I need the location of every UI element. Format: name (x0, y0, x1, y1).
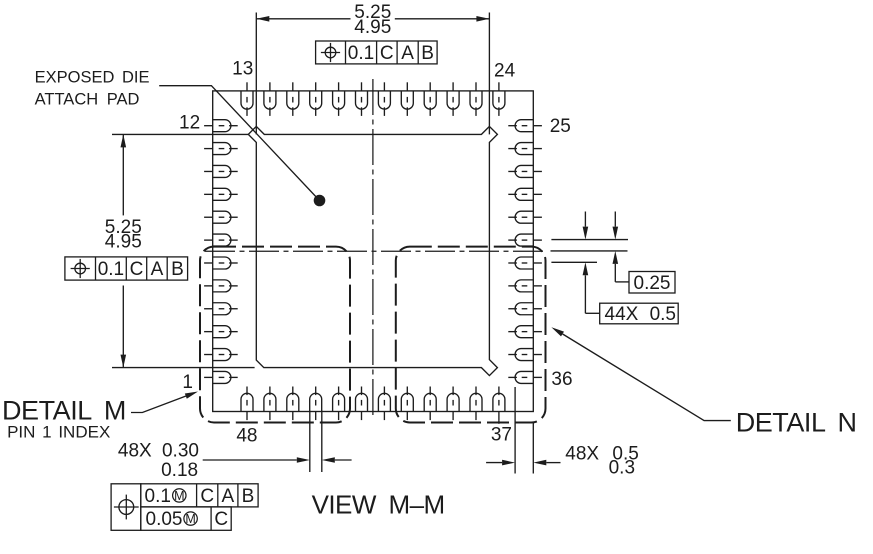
pin 26 pad (508, 143, 542, 155)
pin 45 pad (310, 387, 322, 421)
svg-text:VIEW M–M: VIEW M–M (312, 490, 445, 520)
svg-text:B: B (242, 486, 255, 507)
pin 31 pad (508, 257, 542, 269)
pin 47 pad (264, 387, 276, 421)
pin 39 pad (447, 387, 459, 421)
pin 2 pad (204, 349, 238, 361)
svg-text:0.1: 0.1 (145, 486, 171, 507)
pin 29 pad (508, 211, 542, 223)
svg-text:C: C (380, 43, 394, 64)
pin 46 pad (287, 387, 299, 421)
svg-text:0.18: 0.18 (161, 460, 198, 481)
pin 18 pad (356, 82, 368, 116)
pin 1 pad (204, 371, 238, 383)
pin 8 pad (204, 211, 238, 223)
svg-text:C: C (200, 486, 214, 507)
svg-text:0.1: 0.1 (348, 43, 374, 64)
svg-text:37: 37 (491, 425, 512, 446)
svg-text:4.95: 4.95 (354, 17, 391, 38)
svg-text:13: 13 (232, 59, 253, 80)
pin 17 pad (333, 82, 345, 116)
44X 0.5 boxed text (600, 303, 679, 324)
44X 0.5 upper arrow (584, 212, 586, 227)
package outer body outline (213, 91, 534, 412)
pin 48 pad (241, 387, 253, 421)
pin 10 pad (204, 165, 238, 177)
0.25 lower arrow and leader (613, 251, 619, 264)
svg-text:M: M (174, 489, 184, 503)
top dimension line with arrows (256, 18, 350, 20)
exposed die attach pad leader and dot (159, 86, 319, 201)
pin 15 pad (287, 82, 299, 116)
pin 5 pad (204, 280, 238, 292)
0.25 boxed text (629, 272, 675, 294)
pin 7 pad (204, 234, 238, 246)
horizontal center line (205, 250, 543, 252)
svg-text:A: A (222, 486, 235, 507)
svg-text:0.1: 0.1 (98, 259, 124, 280)
svg-text:M: M (185, 512, 195, 526)
pin 40 pad (424, 387, 436, 421)
svg-text:PIN 1 INDEX: PIN 1 INDEX (7, 422, 110, 441)
pin 11 pad (204, 143, 238, 155)
pin 4 pad (204, 303, 238, 315)
pin 34 pad (508, 326, 542, 338)
svg-text:DETAIL N: DETAIL N (736, 407, 857, 437)
pin 44 pad (333, 387, 345, 421)
0.25 upper arrow (614, 212, 616, 227)
svg-text:25: 25 (550, 116, 571, 137)
pin 37 pad (493, 387, 505, 421)
vertical center line (372, 79, 374, 419)
svg-text:48X 0.30: 48X 0.30 (118, 440, 199, 461)
pin 35 pad (508, 349, 542, 361)
svg-text:24: 24 (494, 61, 516, 82)
svg-text:36: 36 (551, 369, 572, 390)
pin 24 pad (493, 82, 505, 116)
svg-text:4.95: 4.95 (105, 232, 142, 253)
48X 0.5 extension lines (514, 387, 516, 474)
pin 9 pad (204, 188, 238, 200)
pin 13 pad (241, 82, 253, 116)
pin 21 pad (424, 82, 436, 116)
pin 16 pad (310, 82, 322, 116)
pin 27 pad (508, 165, 542, 177)
pin 36 pad (508, 371, 542, 383)
pin 20 pad (401, 82, 413, 116)
pin 28 pad (508, 188, 542, 200)
svg-text:0.3: 0.3 (609, 457, 635, 478)
left feature control frame (65, 257, 188, 280)
detail N boundary (dashed) (396, 247, 546, 423)
svg-text:DETAIL M: DETAIL M (2, 396, 126, 426)
pin 38 pad (470, 387, 482, 421)
bottom feature control frame (111, 484, 258, 531)
svg-text:A: A (151, 259, 164, 280)
left dimension line with arrows (122, 134, 124, 215)
top dimension extension lines (255, 13, 257, 135)
pin 33 pad (508, 303, 542, 315)
pin 41 pad (401, 387, 413, 421)
svg-text:B: B (421, 43, 434, 64)
left dimension extension lines (112, 133, 248, 135)
svg-text:12: 12 (179, 113, 200, 134)
svg-text:44X 0.5: 44X 0.5 (605, 304, 677, 325)
pin 6 pad (204, 257, 238, 269)
svg-text:0.05: 0.05 (146, 509, 183, 530)
48X 0.30 extension lines (309, 411, 311, 473)
pin 30 pad (508, 234, 542, 246)
pin 25 pad (508, 120, 542, 132)
48X 0.5 dimension arrows (486, 462, 502, 464)
svg-text:B: B (171, 259, 184, 280)
pin 3 pad (204, 326, 238, 338)
svg-text:C: C (214, 509, 228, 530)
pin 19 pad (378, 82, 390, 116)
svg-text:A: A (401, 43, 414, 64)
svg-text:48: 48 (236, 426, 257, 447)
44X 0.5 lower arrow and leader (583, 262, 589, 275)
pin 22 pad (447, 82, 459, 116)
svg-text:1: 1 (182, 372, 193, 393)
pin 32 pad (508, 280, 542, 292)
pin 42 pad (378, 387, 390, 421)
svg-text:C: C (130, 259, 144, 280)
48X 0.30 dimension arrows (203, 459, 297, 461)
pin 43 pad (356, 387, 368, 421)
svg-text:ATTACH PAD: ATTACH PAD (35, 90, 140, 108)
svg-text:0.25: 0.25 (634, 273, 671, 294)
exposed die attach pad outline with corner marks and pin-1 chamfer (248, 126, 497, 375)
svg-text:EXPOSED DIE: EXPOSED DIE (35, 69, 150, 87)
pin 14 pad (264, 82, 276, 116)
top feature control frame (316, 41, 438, 64)
pin 12 pad (204, 120, 238, 132)
pin 37 centerline extension (498, 420, 500, 424)
detail M boundary (dashed) (200, 247, 350, 423)
right dimension extension lines (551, 239, 628, 241)
pin 23 pad (470, 82, 482, 116)
